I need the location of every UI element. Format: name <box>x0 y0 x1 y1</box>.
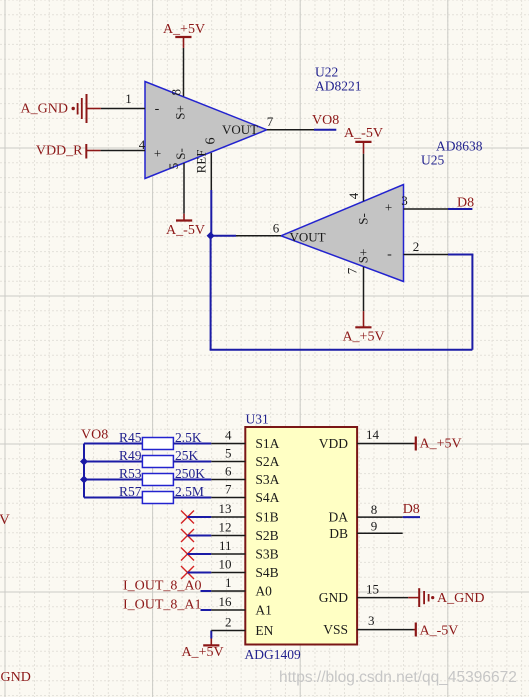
svg-text:10: 10 <box>219 557 232 572</box>
svg-text:15: 15 <box>366 582 379 597</box>
svg-text:EN: EN <box>255 623 273 638</box>
svg-text:DA: DA <box>329 510 349 525</box>
svg-text:VSS: VSS <box>323 622 348 637</box>
svg-text:A_+5V: A_+5V <box>342 330 384 345</box>
U22 pin 7 output wire <box>267 129 314 131</box>
svg-text:A_+5V: A_+5V <box>163 22 205 37</box>
wire bus to resistor R49 <box>84 461 142 463</box>
svg-text:11: 11 <box>219 538 232 553</box>
resistor R49 <box>142 456 173 468</box>
svg-text:U31: U31 <box>246 412 269 427</box>
svg-text:V: V <box>0 512 10 528</box>
svg-text:VO8: VO8 <box>81 428 108 443</box>
svg-text:4: 4 <box>139 137 146 152</box>
wire bus to resistor R45 <box>84 443 142 445</box>
svg-text:A_GND: A_GND <box>21 102 68 117</box>
svg-text:DB: DB <box>329 526 348 541</box>
svg-text:GND: GND <box>1 670 31 685</box>
resistor R57 <box>142 492 173 504</box>
power port A_+5V (below U25) <box>363 311 365 327</box>
svg-text:13: 13 <box>219 501 232 516</box>
svg-text:REF: REF <box>194 150 209 174</box>
wire stub S2B <box>187 535 211 537</box>
U25 pin 4 (V-) wire <box>363 154 365 202</box>
svg-text:-: - <box>155 102 160 117</box>
wire to net D8 (DA) <box>403 516 420 518</box>
node junction <box>207 232 215 240</box>
U22 REF pin wire <box>210 153 212 190</box>
svg-text:9: 9 <box>371 519 378 534</box>
no-connect X on S4B <box>181 566 194 579</box>
junction on bus row S3A <box>80 476 88 484</box>
svg-text:GND: GND <box>319 590 348 605</box>
U22 pin 5 (V-) wire <box>183 163 185 214</box>
svg-text:https://blog.csdn.net/qq_45396: https://blog.csdn.net/qq_45396672 <box>279 669 517 686</box>
svg-text:2: 2 <box>225 615 232 630</box>
resistor R53 <box>142 474 173 486</box>
power port A_-5V (below U22) <box>183 214 185 221</box>
svg-text:R57: R57 <box>119 484 142 499</box>
op-amp U22 triangle body <box>145 82 267 179</box>
U31 pin 11 (S3B) wire <box>211 553 245 555</box>
svg-text:S+: S+ <box>356 249 371 264</box>
svg-text:6: 6 <box>273 221 280 236</box>
svg-text:A_-5V: A_-5V <box>344 126 383 141</box>
U31 pin 4 (S1A) wire <box>211 443 245 445</box>
svg-text:D8: D8 <box>457 196 474 211</box>
resistor R45 <box>142 438 173 450</box>
svg-text:5: 5 <box>166 163 181 170</box>
svg-text:VDD: VDD <box>319 436 348 451</box>
U22 pin 8 (V+) wire <box>183 48 185 96</box>
svg-text:VOUT: VOUT <box>222 122 258 137</box>
svg-text:D8: D8 <box>403 502 420 517</box>
U25 pin 2 wire <box>404 254 449 256</box>
U31 pin 2 (EN) wire <box>211 630 245 632</box>
svg-text:7: 7 <box>225 482 232 497</box>
svg-text:S1A: S1A <box>255 436 279 451</box>
U25 pin 7 (V+) wire <box>363 267 365 311</box>
U31 pin 12 (S2B) wire <box>211 535 245 537</box>
U31 pin 16 (A1) wire <box>211 609 245 611</box>
svg-text:S-: S- <box>173 148 188 160</box>
power port A_+5V (VDD) <box>415 437 417 451</box>
wire R57 to U31 S4A <box>173 497 211 499</box>
U31 pin 5 (S2A) wire <box>211 461 245 463</box>
wire stub S3B <box>187 553 211 555</box>
svg-text:6: 6 <box>204 138 219 145</box>
wire R49 to U31 S2A <box>173 461 211 463</box>
svg-text:S1B: S1B <box>255 510 278 525</box>
U31 pin 7 (S4A) wire <box>211 497 245 499</box>
svg-text:A_+5V: A_+5V <box>420 437 462 452</box>
U31 pin 13 (S1B) wire <box>211 516 245 518</box>
svg-text:3: 3 <box>368 613 375 628</box>
feedback wire bottom <box>210 349 473 351</box>
U25 pin 6 wire <box>236 235 281 237</box>
svg-text:2: 2 <box>413 239 420 254</box>
feedback wire right riser <box>471 255 473 350</box>
wire stub S1B <box>187 516 211 518</box>
svg-text:A_GND: A_GND <box>437 591 484 606</box>
svg-text:VO8: VO8 <box>312 113 339 128</box>
wire node to U25 pin 6 <box>211 235 236 237</box>
multiplexer U31 body <box>245 427 357 645</box>
no-connect X on S1B <box>181 511 194 524</box>
svg-text:AD8638: AD8638 <box>436 139 483 154</box>
U31 pin 10 (S4B) wire <box>211 572 245 574</box>
wire I_OUT_8_A1 <box>201 609 212 611</box>
svg-text:7: 7 <box>345 267 360 274</box>
U22 pin 4 (+IN) wire <box>100 150 145 152</box>
svg-text:4: 4 <box>346 192 361 199</box>
junction on bus row S2A <box>80 458 88 466</box>
svg-text:VOUT: VOUT <box>290 230 326 245</box>
svg-text:I_OUT_8_A0: I_OUT_8_A0 <box>123 579 202 594</box>
svg-text:S2B: S2B <box>255 528 278 543</box>
wire R53 to U31 S3A <box>173 479 211 481</box>
wire REF to node <box>210 190 212 236</box>
svg-text:6: 6 <box>225 464 232 479</box>
svg-text:S3B: S3B <box>255 547 278 562</box>
wire bus to resistor R53 <box>84 479 142 481</box>
svg-text:AD8221: AD8221 <box>315 79 362 94</box>
power port A_+5V (EN) <box>210 639 212 646</box>
svg-text:S4A: S4A <box>255 490 279 505</box>
svg-text:ADG1409: ADG1409 <box>245 647 301 662</box>
svg-text:U22: U22 <box>315 65 338 80</box>
svg-text:12: 12 <box>219 520 232 535</box>
no-connect X on S3B <box>181 548 194 561</box>
wire VO8 vertical bus <box>83 444 85 498</box>
wire to net D8 <box>448 208 472 210</box>
svg-text:1: 1 <box>225 575 232 590</box>
feedback wire down <box>210 236 212 350</box>
U31 pin 14 (VDD) wire <box>357 443 413 445</box>
svg-text:+: + <box>154 146 161 161</box>
wire to U25 pin 2 <box>448 254 473 256</box>
svg-text:8: 8 <box>371 502 378 517</box>
svg-text:S3A: S3A <box>255 472 279 487</box>
power port VDD_R <box>86 150 100 152</box>
svg-text:7: 7 <box>267 114 274 129</box>
U31 pin 8 (DA) wire <box>357 516 403 518</box>
svg-text:A_+5V: A_+5V <box>181 645 223 660</box>
U31 pin 3 (VSS) wire <box>357 629 413 631</box>
op-amp U25 triangle body <box>281 185 404 282</box>
svg-text:S-: S- <box>356 213 371 225</box>
svg-text:U25: U25 <box>421 153 444 168</box>
svg-text:-: - <box>387 247 392 262</box>
svg-text:R49: R49 <box>119 448 142 463</box>
svg-text:8: 8 <box>169 89 184 96</box>
wire stub S4B <box>187 572 211 574</box>
svg-text:R53: R53 <box>119 466 142 481</box>
U31 pin 1 (A0) wire <box>211 590 245 592</box>
svg-text:A_-5V: A_-5V <box>420 624 459 639</box>
power port A_GND (right) <box>408 597 419 599</box>
wire EN to A_+5V <box>210 631 212 639</box>
svg-text:A_-5V: A_-5V <box>166 223 205 238</box>
svg-text:A0: A0 <box>255 584 272 599</box>
svg-text:3: 3 <box>401 193 408 208</box>
svg-text:+: + <box>385 200 392 215</box>
svg-text:I_OUT_8_A1: I_OUT_8_A1 <box>123 598 202 613</box>
svg-text:S4B: S4B <box>255 565 278 580</box>
svg-text:S+: S+ <box>173 105 188 120</box>
svg-text:R45: R45 <box>119 430 142 445</box>
U22 pin 1 (-IN) wire <box>101 108 145 110</box>
U31 pin 9 (DB) wire <box>357 532 403 534</box>
svg-text:1: 1 <box>125 91 132 106</box>
power port A_GND <box>87 108 101 110</box>
wire to net VO8 <box>314 129 336 131</box>
svg-text:5: 5 <box>225 446 232 461</box>
svg-text:S2A: S2A <box>255 454 279 469</box>
svg-text:16: 16 <box>219 594 233 609</box>
no-connect X on S2B <box>181 529 194 542</box>
U31 pin 6 (S3A) wire <box>211 479 245 481</box>
wire I_OUT_8_A0 <box>201 590 212 592</box>
svg-text:VDD_R: VDD_R <box>36 144 83 159</box>
svg-text:14: 14 <box>366 427 380 442</box>
power port A_+5V (top) <box>183 37 185 48</box>
wire bus to resistor R57 <box>84 497 142 499</box>
U25 pin 3 wire <box>404 208 449 210</box>
wire R45 to U31 S1A <box>173 443 211 445</box>
U31 pin 15 (GND) wire <box>357 597 408 599</box>
svg-text:4: 4 <box>225 428 232 443</box>
svg-text:A1: A1 <box>255 603 272 618</box>
power port A_-5V (VSS) <box>415 623 417 637</box>
